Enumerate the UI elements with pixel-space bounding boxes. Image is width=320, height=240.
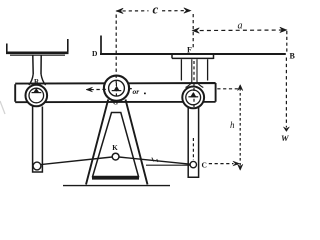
horizontal reference rod to C (146, 164, 190, 166)
link rod right: K to C (119, 157, 190, 164)
dim a right arrow (280, 27, 287, 32)
dim c left arrow (116, 8, 123, 13)
svg-text:G: G (113, 100, 118, 107)
svg-text:C: C (202, 161, 207, 170)
dim h bottom arrow (238, 164, 243, 170)
svg-text:h: h (230, 120, 235, 130)
hanger post to ring (192, 59, 197, 82)
leader dash arrow left of G (89, 88, 106, 90)
knife edge in G (112, 90, 122, 92)
pivot ring F lower inner (186, 90, 201, 105)
centerline in right bar (192, 138, 194, 160)
steelyard left upright stub (100, 36, 102, 55)
left edge smudge (0, 101, 5, 114)
dashes bar end to h line (217, 88, 239, 90)
ground line (63, 185, 170, 187)
fulcrum ring G inner (109, 80, 125, 96)
dim c right arrow (184, 8, 191, 13)
right lower bar to C (188, 108, 198, 178)
svg-text:B: B (290, 52, 296, 61)
dashes C to h line with arrow (209, 163, 234, 165)
svg-text:a: a (238, 21, 243, 32)
angle tick marks (152, 158, 158, 162)
A-frame inner base thick line (92, 177, 139, 180)
centerline G vertical dashes (115, 15, 117, 84)
pivot ring R inner (29, 88, 44, 103)
main lever bar (15, 83, 215, 102)
A-frame stand outer legs (86, 100, 148, 185)
svg-text:F: F (187, 46, 192, 55)
left hanger boss flare (29, 74, 46, 85)
stirrup straps (181, 59, 207, 80)
pivot K circle (112, 153, 119, 160)
hanging line B-W dashes (286, 31, 288, 52)
A-frame inner cutout (93, 113, 139, 177)
svg-text:D: D (92, 49, 98, 58)
svg-text:c: c (153, 1, 159, 16)
left lower hanger bar (33, 107, 43, 173)
dim line c dashes (116, 10, 148, 12)
dim line a dashes (193, 29, 287, 32)
knife edge in lower F ring (188, 96, 198, 98)
centerline F vertical dashes upper (192, 14, 194, 50)
centerline of F hanger lower (193, 61, 195, 107)
post boss flare (186, 82, 204, 88)
dim h top arrow (238, 85, 243, 91)
dim a left arrow (192, 28, 199, 33)
dot after or (144, 93, 146, 95)
svg-text:K: K (112, 144, 118, 152)
svg-text:or: or (133, 87, 140, 96)
pivot ring R outer (26, 85, 48, 107)
fulcrum ring G outer (104, 76, 129, 101)
steelyard beam D-B (100, 53, 286, 55)
link rod left: bottom circle to K (41, 157, 112, 165)
pivot circle at left bar bottom (33, 162, 41, 170)
scale pan tray (7, 39, 68, 52)
pivot ring F lower outer (182, 87, 204, 109)
hanger crossbar at F (172, 55, 214, 59)
W arrow head (283, 127, 289, 132)
leader dash right of G (129, 88, 132, 90)
pivot circle C (190, 161, 196, 167)
knife edge in R (32, 92, 42, 94)
dim h vertical dotted (239, 88, 241, 167)
left hanger post (33, 56, 41, 75)
